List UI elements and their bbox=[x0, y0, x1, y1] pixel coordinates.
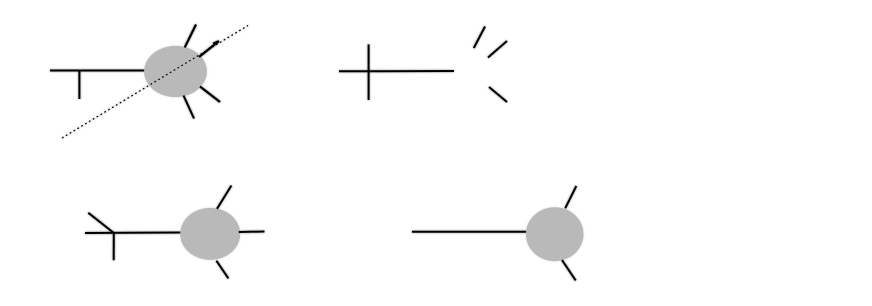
wire: dendrite top-right bbox=[217, 186, 231, 209]
neuron 1 (top-left, crossed out) bbox=[50, 25, 220, 119]
dotted cut line across neuron 1 bbox=[62, 26, 248, 139]
soft halo duplicate for hand-scan softness bbox=[50, 25, 584, 281]
soma N3 bbox=[526, 207, 584, 261]
wire: dendrite bottom bbox=[184, 96, 195, 119]
spark mark middle bbox=[488, 41, 507, 58]
wire: axon horizontal long bbox=[412, 231, 527, 233]
wire: dendrite vertical down bbox=[113, 233, 115, 260]
wire: dendrite vertical tick bbox=[78, 71, 80, 100]
wire: axon upper-right with hooked tip bbox=[199, 41, 219, 57]
wire: dendrite bottom-right bbox=[562, 260, 576, 280]
soma N2 bbox=[180, 208, 240, 260]
wire: crossing vertical bbox=[368, 44, 370, 100]
wire: dendrite top bbox=[185, 25, 196, 48]
spark mark upper bbox=[474, 27, 485, 49]
wire: dendrite bottom-right bbox=[200, 87, 220, 103]
soma N1 bbox=[144, 46, 207, 97]
wire: dendrite diagonal upper-left bbox=[88, 213, 114, 233]
wire: dendrite bottom-right bbox=[216, 261, 228, 279]
wire: axon right bbox=[239, 231, 265, 234]
wire: dendrite horizontal left bbox=[50, 70, 147, 72]
wire: dendrite horizontal bbox=[85, 232, 182, 235]
wire: axon horizontal bbox=[339, 70, 454, 72]
neuron 3 (bottom-right) bbox=[412, 186, 584, 280]
spark mark lower bbox=[489, 87, 507, 102]
neuron 2 (bottom-left) bbox=[85, 186, 265, 279]
severed axon (top-middle) bbox=[339, 27, 507, 103]
arrowhead barb of axon bbox=[213, 41, 219, 44]
wire: dendrite top-right bbox=[565, 186, 576, 208]
